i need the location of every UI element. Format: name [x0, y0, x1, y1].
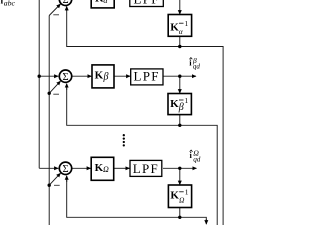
junction dot omega LPF output [178, 167, 181, 170]
wire: beta diagonal minus input [49, 81, 60, 93]
svg-text:Ω: Ω [103, 165, 109, 174]
svg-text:abc: abc [4, 0, 16, 8]
junction dot omega feedback [178, 216, 181, 219]
wire: alpha feedback horizontal and up into sum [67, 9, 180, 47]
wire: beta main input arrow [39, 75, 58, 77]
svg-text:Σ: Σ [62, 0, 68, 6]
svg-text:Ω: Ω [179, 195, 185, 204]
wire: omega K inverse out down [179, 208, 181, 218]
wire: omega sum to K box [73, 167, 91, 169]
summing junction omega [59, 162, 71, 174]
junction dot bus A / beta row [38, 75, 41, 78]
gain block K alpha (cut at top) [91, 0, 114, 8]
wire: beta sum to K box [73, 75, 92, 77]
svg-text:1: 1 [185, 96, 189, 105]
svg-text:1: 1 [185, 19, 189, 28]
wire: beta K inverse out down [179, 115, 181, 126]
wire: omega diagonal minus input [49, 173, 60, 185]
wire: beta drop into K inverse [179, 76, 181, 93]
LPF block beta [131, 69, 163, 85]
svg-text:β: β [178, 102, 184, 113]
inverse gain block K beta^-1 [168, 94, 191, 115]
wire: alpha diagonal minus input [49, 4, 60, 16]
svg-text:K: K [95, 69, 104, 81]
svg-text:LPF: LPF [134, 69, 160, 84]
wire: alpha feedback to right edge down [180, 47, 223, 226]
summing junction alpha (cut at top) [59, 0, 71, 6]
svg-text:Σ: Σ [62, 164, 68, 175]
wire: bus A corner into omega sum [39, 167, 58, 169]
svg-text:LPF: LPF [133, 161, 159, 176]
wire: omega K to LPF [114, 167, 130, 169]
svg-text:Σ: Σ [62, 72, 68, 83]
junction dot bus B / omega diagonal [48, 184, 51, 187]
inverse gain block K omega^-1 [168, 185, 191, 208]
vdots between beta and omega rows [123, 134, 125, 147]
minus sign alpha [53, 14, 59, 16]
wire: omega feedback to bottom exit arrow [180, 217, 207, 221]
svg-text:β: β [103, 72, 109, 83]
svg-text:LPF: LPF [134, 0, 160, 6]
minus sign beta [53, 93, 59, 95]
gain block K beta [92, 65, 114, 88]
wire: beta LPF to output arrow [163, 75, 196, 77]
wire: beta K to LPF [114, 75, 130, 77]
junction dot beta feedback [178, 124, 181, 127]
wire: beta feedback to right edge down [180, 125, 217, 225]
wire: omega LPF to output arrow [163, 167, 197, 169]
summing junction beta [59, 70, 71, 82]
svg-text:K: K [170, 98, 179, 110]
minus sign omega [54, 184, 60, 186]
junction dot beta LPF output [178, 75, 181, 78]
wire: input bus A vertical [38, 0, 40, 168]
wire: alpha drop into K inverse [179, 0, 181, 14]
LPF block alpha (cut at top) [130, 0, 164, 7]
svg-text:qd: qd [193, 156, 201, 164]
wire: bus B vertical (subtraction bus) [48, 16, 50, 226]
wire: beta feedback horizontal and up into sum [67, 86, 180, 125]
wire: alpha K inverse out down [179, 36, 181, 46]
svg-text:qd: qd [193, 63, 201, 71]
wire: omega drop into K inverse [179, 168, 181, 184]
wire: omega feedback horizontal and up into sum [67, 178, 180, 217]
gain block K omega [91, 157, 114, 180]
inverse gain block K alpha^-1 [168, 15, 191, 37]
LPF block omega [130, 160, 162, 176]
junction dot bus B / beta diagonal [48, 92, 51, 95]
svg-text:1: 1 [185, 188, 189, 197]
junction dot alpha feedback [178, 45, 181, 48]
